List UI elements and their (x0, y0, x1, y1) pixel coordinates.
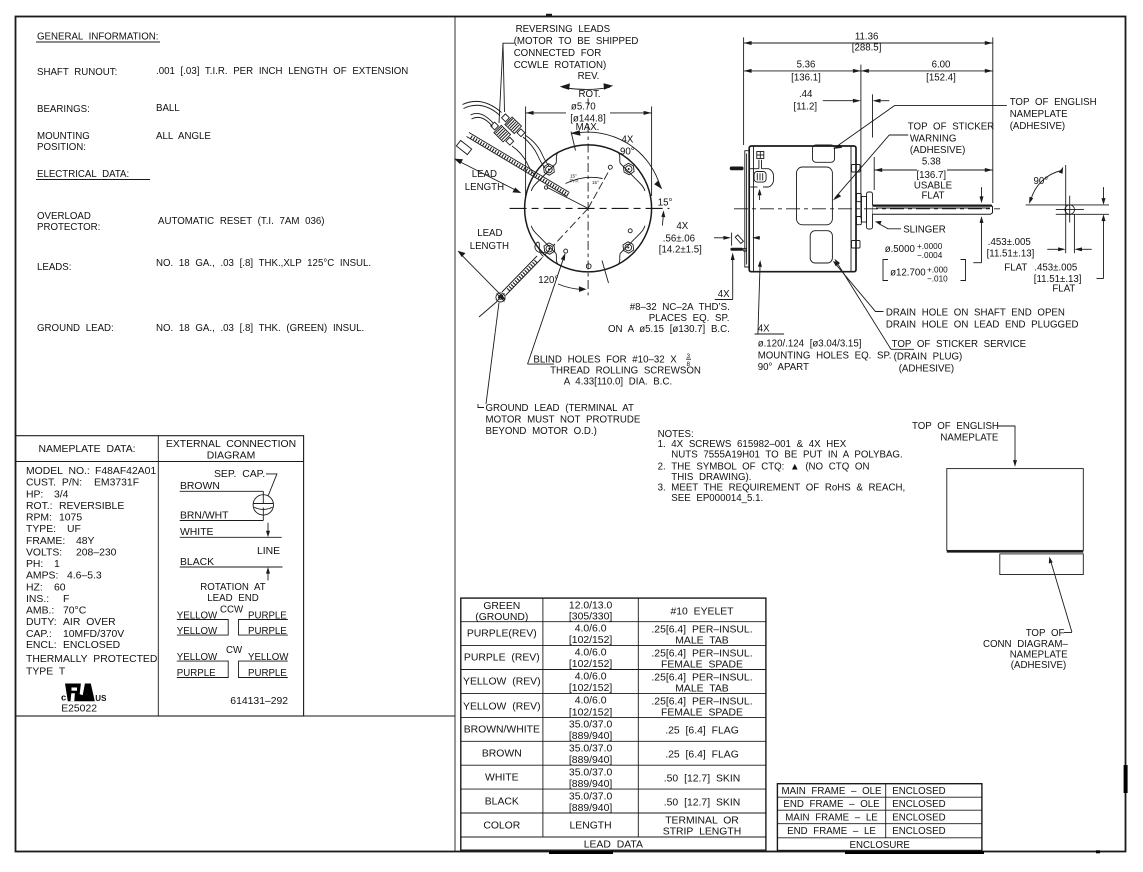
ear bottom-left (531, 226, 558, 265)
svg-text:COLOR: COLOR (483, 821, 520, 832)
svg-text:ø.5000: ø.5000 (885, 244, 916, 255)
svg-text:VOLTS:: VOLTS: (26, 548, 62, 559)
diagonal to top-right hole (588, 170, 610, 209)
small holes (608, 165, 612, 169)
svg-text:AMB.:: AMB.: (26, 606, 54, 617)
svg-text:THIS DRAWING).: THIS DRAWING). (671, 472, 751, 483)
vertical centerline (587, 99, 589, 106)
svg-text:F: F (63, 594, 69, 605)
flat bottom line (1056, 213, 1109, 215)
svg-text:FLAT: FLAT (1052, 284, 1075, 295)
svg-text:.453±.005: .453±.005 (988, 237, 1031, 248)
svg-text:1.: 1. (658, 439, 666, 450)
svg-text:CAP.:: CAP.: (26, 629, 52, 640)
connection diagram (166, 439, 296, 707)
svg-text:ø12.700: ø12.700 (890, 268, 926, 279)
svg-text:.25[6.4] PER–INSUL.: .25[6.4] PER–INSUL. (651, 697, 752, 708)
svg-text:4.0/6.0: 4.0/6.0 (575, 672, 607, 683)
svg-text:(ADHESIVE): (ADHESIVE) (1011, 660, 1066, 671)
svg-text:MALE TAB: MALE TAB (675, 636, 728, 647)
svg-text:US: US (95, 694, 107, 703)
svg-text:10MFD/370V: 10MFD/370V (63, 629, 124, 640)
svg-text:#10 EYELET: #10 EYELET (670, 607, 734, 618)
svg-text:AUTOMATIC RESET (T.I. 7AM 036): AUTOMATIC RESET (T.I. 7AM 036) (158, 216, 325, 227)
svg-text:5.36: 5.36 (797, 60, 816, 71)
svg-text:[11.51±.13]: [11.51±.13] (987, 249, 1035, 260)
nameplate table (16, 436, 304, 716)
svg-text:12.0/13.0: 12.0/13.0 (569, 601, 613, 612)
svg-text:MOTOR MUST NOT PROTRUDE: MOTOR MUST NOT PROTRUDE (486, 415, 641, 426)
ear top-left (531, 152, 558, 191)
ground lead leader (486, 303, 499, 405)
svg-text:BEYOND MOTOR O.D.): BEYOND MOTOR O.D.) (486, 426, 597, 437)
svg-text:PROTECTOR:: PROTECTOR: (37, 222, 100, 233)
svg-text:BRN/WHT: BRN/WHT (180, 510, 229, 521)
svg-text:3.: 3. (658, 483, 666, 494)
grid square stud symbol (757, 152, 764, 159)
bracket arrow (759, 192, 761, 200)
ground lead wavy wire (535, 242, 546, 256)
svg-text:GROUND LEAD:: GROUND LEAD: (37, 323, 114, 334)
hex boss top-left (544, 164, 555, 175)
shaft flat height arrows (981, 187, 983, 199)
svg-text:DRAIN HOLE ON SHAFT END OPEN: DRAIN HOLE ON SHAFT END OPEN (886, 308, 1065, 319)
inner vertical left (753, 146, 755, 272)
svg-text:.44: .44 (799, 89, 813, 100)
end view detail (1004, 165, 1109, 295)
svg-text:SLINGER: SLINGER (903, 224, 946, 235)
capacitor symbol (253, 495, 273, 515)
panel separator wall (454, 17, 456, 852)
svg-text:HZ:: HZ: (26, 582, 43, 593)
diagonal lead to center (547, 187, 588, 208)
svg-text:[11.2]: [11.2] (794, 102, 818, 113)
UL mark (61, 684, 107, 715)
svg-text:(DRAIN PLUG): (DRAIN PLUG) (894, 351, 963, 362)
svg-text:STRIP LENGTH: STRIP LENGTH (663, 827, 741, 838)
ground terminal ring (496, 293, 505, 302)
svg-text:.50 [12.7] SKIN: .50 [12.7] SKIN (664, 774, 740, 785)
svg-text:ENCL:: ENCL: (26, 640, 57, 651)
svg-text:YELLOW (REV): YELLOW (REV) (463, 702, 540, 713)
left flange (745, 151, 749, 267)
svg-text:WHITE: WHITE (180, 527, 214, 538)
svg-text:CCW: CCW (220, 605, 244, 616)
svg-text:TERMINAL OR: TERMINAL OR (665, 816, 739, 827)
svg-text:6.00: 6.00 (932, 60, 951, 71)
lower stud (730, 248, 743, 251)
svg-text:LEAD DATA: LEAD DATA (584, 840, 643, 851)
svg-text:4X: 4X (718, 289, 730, 300)
svg-text:[136.1]: [136.1] (791, 73, 821, 84)
svg-text:5.38: 5.38 (922, 157, 941, 168)
leader to conn nameplate (1051, 561, 1072, 633)
svg-text:4.6–5.3: 4.6–5.3 (67, 571, 102, 582)
svg-text:MALE TAB: MALE TAB (675, 684, 728, 695)
svg-text:3/4: 3/4 (54, 489, 69, 500)
warning sticker (797, 167, 833, 225)
svg-text:LENGTH: LENGTH (470, 241, 509, 252)
wires from connectors to motor (523, 137, 545, 168)
svg-text:[889/940]: [889/940] (569, 731, 612, 742)
svg-text:.25[6.4] PER–INSUL.: .25[6.4] PER–INSUL. (651, 649, 752, 660)
svg-text:HP:: HP: (26, 489, 43, 500)
svg-text:ø5.70: ø5.70 (571, 102, 596, 113)
svg-text:CCWLE ROTATION): CCWLE ROTATION) (514, 60, 607, 71)
svg-text:UF: UF (67, 524, 81, 535)
svg-text:90° APART: 90° APART (758, 362, 809, 373)
svg-text:FRAME:: FRAME: (26, 536, 65, 547)
lead exit bracket (758, 160, 760, 169)
flat top line (1026, 204, 1109, 206)
svg-text:SHAFT RUNOUT:: SHAFT RUNOUT: (37, 67, 117, 78)
slinger (867, 192, 873, 229)
svg-text:NAMEPLATE: NAMEPLATE (940, 433, 998, 444)
inner vertical right (850, 146, 852, 272)
svg-text:.25 [6.4] FLAG: .25 [6.4] FLAG (665, 726, 739, 737)
svg-text:NAMEPLATE DATA:: NAMEPLATE DATA: (38, 444, 135, 455)
svg-text:MODEL NO.:: MODEL NO.: (26, 466, 90, 477)
svg-text:LINE: LINE (257, 546, 280, 557)
svg-text:120°: 120° (538, 275, 558, 286)
svg-text:THREAD ROLLING SCREWSON: THREAD ROLLING SCREWSON (550, 366, 701, 377)
right vertical (1073, 214, 1075, 253)
line arrow up (267, 570, 269, 580)
svg-text:YELLOW (REV): YELLOW (REV) (463, 677, 540, 688)
svg-text:OVERLOAD: OVERLOAD (37, 211, 91, 222)
svg-text:NO. 18 GA., .03 [.8] THK. (GRE: NO. 18 GA., .03 [.8] THK. (GREEN) INSUL. (156, 323, 364, 334)
svg-text:TOP OF STICKER: TOP OF STICKER (908, 122, 994, 133)
svg-text:TOP OF ENGLISH: TOP OF ENGLISH (1010, 97, 1097, 108)
svg-text:ø.120/.124 [ø3.04/3.15]: ø.120/.124 [ø3.04/3.15] (758, 339, 862, 350)
svg-text:A 4.33[110.0] DIA. B.C.: A 4.33[110.0] DIA. B.C. (564, 377, 672, 388)
svg-text:DIAGRAM: DIAGRAM (207, 451, 256, 462)
svg-text:WARNING: WARNING (910, 133, 956, 144)
svg-text:TYPE T: TYPE T (26, 667, 66, 678)
svg-text:4X: 4X (758, 324, 770, 335)
svg-text:ALL ANGLE: ALL ANGLE (156, 131, 211, 142)
svg-text:ENCLOSED: ENCLOSED (892, 826, 945, 837)
svg-text:CONNECTED FOR: CONNECTED FOR (514, 48, 602, 59)
svg-text:MOUNTING: MOUNTING (37, 131, 90, 142)
leader to connectors (499, 43, 515, 123)
svg-text:E25022: E25022 (61, 703, 97, 714)
svg-text:BROWN/WHITE: BROWN/WHITE (464, 725, 540, 736)
svg-text:[152.4]: [152.4] (926, 73, 956, 84)
svg-text:AIR OVER: AIR OVER (63, 617, 116, 628)
line arrow down (267, 523, 269, 534)
hex boss bottom-right (623, 242, 634, 253)
svg-text:4.0/6.0: 4.0/6.0 (575, 648, 607, 659)
svg-text:(ADHESIVE): (ADHESIVE) (910, 145, 965, 156)
svg-text:EXTERNAL CONNECTION: EXTERNAL CONNECTION (166, 439, 296, 450)
svg-text:.50 [12.7] SKIN: .50 [12.7] SKIN (664, 798, 740, 809)
4x 90 arc (572, 132, 661, 188)
svg-text:PLACES EQ. SP.: PLACES EQ. SP. (649, 313, 730, 324)
svg-text:4.0/6.0: 4.0/6.0 (575, 624, 607, 635)
svg-text:1075: 1075 (59, 513, 82, 524)
svg-text:(GROUND): (GROUND) (475, 612, 528, 623)
left info panel (16, 17, 456, 852)
svg-text:.453±.005: .453±.005 (1034, 263, 1077, 274)
svg-text:SEE EP000014_5.1.: SEE EP000014_5.1. (671, 493, 763, 504)
svg-text:END FRAME – OLE: END FRAME – OLE (783, 799, 880, 810)
svg-text:DRAIN HOLE ON LEAD END PLUGGED: DRAIN HOLE ON LEAD END PLUGGED (886, 320, 1079, 331)
svg-text:EM3731F: EM3731F (94, 478, 139, 489)
inner cup (754, 172, 766, 183)
svg-text:LENGTH: LENGTH (570, 821, 612, 832)
main circle (525, 145, 652, 272)
down arrow top right (1103, 187, 1105, 201)
svg-text:.001 [.03] T.I.R. PER INCH LEN: .001 [.03] T.I.R. PER INCH LENGTH OF EXT… (156, 66, 408, 77)
svg-text:END FRAME – LE: END FRAME – LE (787, 826, 876, 837)
service sticker (810, 231, 832, 263)
centerline (734, 208, 1000, 210)
svg-text:.25[6.4] PER–INSUL.: .25[6.4] PER–INSUL. (651, 673, 752, 684)
svg-text:.25 [6.4] FLAG: .25 [6.4] FLAG (665, 750, 739, 761)
angle arc near center (566, 177, 603, 183)
svg-text:FEMALE SPADE: FEMALE SPADE (661, 660, 743, 671)
svg-text:INS.:: INS.: (26, 594, 49, 605)
svg-text:F48AF42A01: F48AF42A01 (95, 466, 156, 477)
svg-text:PH:: PH: (26, 559, 43, 570)
radial dash to ground lead (539, 208, 588, 261)
svg-text:[102/152]: [102/152] (569, 708, 612, 719)
svg-text:LENGTH: LENGTH (465, 182, 504, 193)
svg-text:48Y: 48Y (76, 536, 95, 547)
svg-text:TOP OF: TOP OF (1026, 628, 1065, 639)
svg-text:60: 60 (54, 582, 66, 593)
svg-text:ENCLOSED: ENCLOSED (892, 786, 945, 797)
svg-text:BEARINGS:: BEARINGS: (37, 104, 90, 115)
svg-text:AMPS:: AMPS: (26, 571, 58, 582)
svg-text:35.0/37.0: 35.0/37.0 (569, 792, 613, 803)
svg-text:15°: 15° (592, 180, 599, 185)
svg-text:LEAD END: LEAD END (207, 593, 258, 604)
svg-text:NUTS 7555A19H01 TO BE PUT IN A: NUTS 7555A19H01 TO BE PUT IN A POLYBAG. (671, 449, 902, 460)
svg-text:ROT.:: ROT.: (26, 501, 53, 512)
svg-text:ROT.: ROT. (579, 89, 601, 100)
svg-text:(MOTOR TO BE SHIPPED: (MOTOR TO BE SHIPPED (514, 36, 639, 47)
svg-text:[102/152]: [102/152] (569, 635, 612, 646)
svg-text:+.0000: +.0000 (917, 242, 943, 251)
svg-text:15°: 15° (658, 197, 673, 208)
svg-text:+.000: +.000 (927, 266, 948, 275)
svg-text:THERMALLY PROTECTED: THERMALLY PROTECTED (26, 654, 157, 665)
.56 dim at stud (714, 237, 727, 239)
notes (658, 429, 906, 504)
svg-text:LEADS:: LEADS: (37, 262, 71, 273)
svg-text:[102/152]: [102/152] (569, 659, 612, 670)
svg-text:(ADHESIVE): (ADHESIVE) (1010, 121, 1065, 132)
svg-text:NAMEPLATE: NAMEPLATE (1010, 650, 1068, 661)
svg-text:4X: 4X (676, 221, 688, 232)
svg-text:ENCLOSED: ENCLOSED (892, 799, 945, 810)
hub (862, 197, 867, 223)
svg-text:ROTATION AT: ROTATION AT (200, 582, 266, 593)
svg-text:POSITION:: POSITION: (37, 142, 86, 153)
svg-text:CUST. P/N:: CUST. P/N: (26, 478, 82, 489)
shaft (873, 205, 993, 214)
ear top-right (618, 152, 645, 191)
lead data table (461, 598, 766, 850)
svg-text:GROUND LEAD (TERMINAL AT: GROUND LEAD (TERMINAL AT (486, 403, 634, 414)
english nameplate rect (947, 469, 1084, 551)
svg-text:35.0/37.0: 35.0/37.0 (569, 768, 613, 779)
ear bottom-right (618, 226, 645, 265)
svg-text:RPM:: RPM: (26, 513, 52, 524)
svg-text:−.0004: −.0004 (917, 251, 943, 260)
svg-text:BLACK: BLACK (180, 557, 214, 568)
svg-text:#8–32 NC–2A THD’S.: #8–32 NC–2A THD’S. (630, 302, 730, 313)
motor body (749, 146, 856, 272)
right side tabs (852, 165, 861, 173)
svg-text:MAIN FRAME – OLE: MAIN FRAME – OLE (782, 786, 883, 797)
svg-text:MOUNTING HOLES EQ. SP.: MOUNTING HOLES EQ. SP. (758, 350, 892, 361)
svg-text:PURPLE(REV): PURPLE(REV) (467, 629, 537, 640)
svg-text:REVERSING LEADS: REVERSING LEADS (516, 24, 611, 35)
svg-text:[305/330]: [305/330] (569, 612, 612, 623)
enclosure table (777, 784, 982, 851)
svg-text:90°: 90° (620, 147, 635, 158)
svg-text:35.0/37.0: 35.0/37.0 (569, 720, 613, 731)
svg-text:ELECTRICAL DATA:: ELECTRICAL DATA: (37, 169, 129, 180)
svg-text:FLAT: FLAT (922, 191, 945, 202)
svg-text:4.0/6.0: 4.0/6.0 (575, 696, 607, 707)
svg-text:[136.7]: [136.7] (916, 170, 946, 181)
svg-text:LEAD: LEAD (477, 228, 502, 239)
svg-text:NAMEPLATE: NAMEPLATE (1010, 109, 1068, 120)
svg-text:[102/152]: [102/152] (569, 683, 612, 694)
up arrow bottom right (1103, 218, 1105, 279)
svg-text:[889/940]: [889/940] (569, 779, 612, 790)
nameplate sketch (912, 421, 1083, 671)
hub bumps (857, 194, 862, 202)
svg-text:4X: 4X (622, 135, 634, 146)
svg-text:REVERSIBLE: REVERSIBLE (59, 501, 124, 512)
svg-text:TYPE:: TYPE: (26, 524, 56, 535)
svg-text:TOP OF ENGLISH: TOP OF ENGLISH (912, 421, 999, 432)
svg-text:ENCLOSED: ENCLOSED (63, 640, 120, 651)
svg-text:BROWN: BROWN (482, 749, 522, 760)
svg-text:11.36: 11.36 (855, 32, 879, 43)
svg-text:BALL: BALL (156, 103, 180, 114)
svg-text:TOP OF STICKER SERVICE: TOP OF STICKER SERVICE (892, 339, 1027, 350)
svg-text:−.010: −.010 (927, 275, 948, 284)
connector barrel upper (500, 112, 527, 138)
svg-text:FLAT: FLAT (1004, 263, 1027, 274)
svg-text:GREEN: GREEN (483, 601, 520, 612)
front view (454, 24, 735, 437)
svg-text:FEMALE SPADE: FEMALE SPADE (661, 708, 743, 719)
svg-text:.56±.06: .56±.06 (663, 234, 695, 245)
left vertical (1065, 165, 1067, 253)
max leader (571, 132, 576, 151)
svg-text:THE SYMBOL OF CTQ: ▲ (NO CTQ O: THE SYMBOL OF CTQ: ▲ (NO CTQ ON (671, 462, 869, 473)
svg-text:[288.5]: [288.5] (852, 42, 882, 53)
svg-text:.25[6.4] PER–INSUL.: .25[6.4] PER–INSUL. (651, 625, 752, 636)
15 deg tilt line bottom (602, 261, 609, 284)
svg-text:35.0/37.0: 35.0/37.0 (569, 744, 613, 755)
svg-text:208–230: 208–230 (76, 548, 117, 559)
svg-text:(ADHESIVE): (ADHESIVE) (899, 363, 954, 374)
svg-text:ENCLOSURE: ENCLOSURE (850, 840, 911, 851)
horizontal centerline (510, 207, 670, 209)
svg-text:PURPLE (REV): PURPLE (REV) (464, 653, 540, 664)
svg-text:GENERAL INFORMATION:: GENERAL INFORMATION: (37, 32, 158, 43)
shaft end circle (1065, 205, 1075, 215)
wire curves to connectors (463, 101, 502, 112)
svg-text:[889/940]: [889/940] (569, 755, 612, 766)
svg-text:SEP. CAP.: SEP. CAP. (214, 469, 265, 480)
ground lead ribbon (502, 256, 541, 296)
hex boss bottom-left (544, 243, 555, 254)
connector barrel lower (489, 120, 515, 146)
svg-text:[889/940]: [889/940] (569, 803, 612, 814)
svg-text:CONN DIAGRAM–: CONN DIAGRAM– (983, 639, 1068, 650)
side view (714, 32, 1097, 375)
svg-text:BLIND HOLES FOR #10–32 X: BLIND HOLES FOR #10–32 X (533, 355, 677, 366)
svg-text:ENCLOSED: ENCLOSED (892, 813, 945, 824)
conn diagram nameplate rect (947, 551, 1084, 553)
panel horizontal divider (16, 715, 456, 717)
upper stud (730, 167, 744, 171)
svg-text:NO. 18 GA., .03 [.8] THK.,XLP: NO. 18 GA., .03 [.8] THK.,XLP 125°C INSU… (156, 258, 371, 269)
svg-text:2.: 2. (658, 462, 666, 473)
svg-text:[14.2±1.5]: [14.2±1.5] (659, 245, 702, 256)
svg-text:CW: CW (226, 645, 243, 656)
svg-text:MAIN FRAME – LE: MAIN FRAME – LE (785, 813, 878, 824)
svg-text:c: c (61, 693, 66, 704)
svg-text:70°C: 70°C (63, 606, 87, 617)
svg-text:BROWN: BROWN (180, 481, 220, 492)
bottom width arrows (1047, 248, 1062, 250)
svg-text:TYP.: TYP. (570, 179, 580, 184)
svg-text:ON A ø5.15 [ø130.7] B.C.: ON A ø5.15 [ø130.7] B.C. (608, 324, 730, 335)
svg-text:WHITE: WHITE (485, 773, 519, 784)
hex boss top-right (623, 163, 634, 174)
svg-text:1: 1 (54, 559, 60, 570)
nameplate tab on top (813, 145, 835, 162)
svg-text:DUTY:: DUTY: (26, 617, 57, 628)
svg-text:BLACK: BLACK (485, 797, 519, 808)
svg-text:614131–292: 614131–292 (230, 696, 288, 707)
svg-text:REV.: REV. (578, 71, 600, 82)
upper lead ribbon (456, 133, 569, 197)
